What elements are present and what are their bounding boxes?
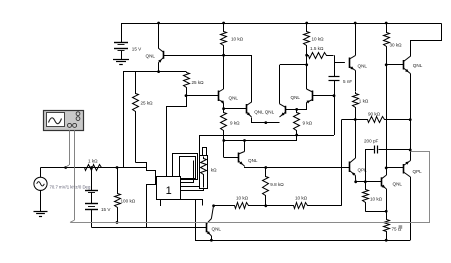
svg-text:QNL: QNL <box>413 63 423 68</box>
svg-text:10 kΩ: 10 kΩ <box>236 196 249 201</box>
svg-text:70.7 mV/1 kHz/0 Deg: 70.7 mV/1 kHz/0 Deg <box>50 184 91 189</box>
svg-text:QPL: QPL <box>413 169 423 174</box>
svg-text:10 kΩ: 10 kΩ <box>295 196 308 201</box>
svg-text:9 kΩ: 9 kΩ <box>303 121 313 126</box>
svg-text:90 kΩ: 90 kΩ <box>368 111 381 116</box>
svg-text:100 kΩ: 100 kΩ <box>121 199 136 204</box>
svg-text:QNL: QNL <box>146 54 156 59</box>
svg-text:QNL: QNL <box>358 63 368 68</box>
svg-text:25 kΩ: 25 kΩ <box>192 80 205 85</box>
svg-text:15 V: 15 V <box>132 47 142 52</box>
svg-text:1: 1 <box>166 185 172 197</box>
svg-text:QNL: QNL <box>248 158 258 163</box>
svg-text:QNL: QNL <box>291 95 301 100</box>
svg-text:1 kΩ: 1 kΩ <box>359 99 369 104</box>
svg-text:QNL: QNL <box>393 182 403 187</box>
svg-text:1 kΩ: 1 kΩ <box>88 159 98 164</box>
svg-text:15 V: 15 V <box>101 207 111 212</box>
svg-text:10 kΩ: 10 kΩ <box>312 37 325 42</box>
svg-text:QNL: QNL <box>229 96 239 101</box>
svg-text:QNL: QNL <box>212 227 222 232</box>
svg-text:10 kΩ: 10 kΩ <box>370 197 383 202</box>
svg-text:25 kΩ: 25 kΩ <box>141 101 154 106</box>
svg-text:200 pF: 200 pF <box>364 139 378 144</box>
svg-text:QNL QNL: QNL QNL <box>254 110 274 115</box>
svg-text:1.5 kΩ: 1.5 kΩ <box>310 46 324 51</box>
svg-text:5 nF: 5 nF <box>343 79 352 84</box>
svg-text:9 kΩ: 9 kΩ <box>230 121 240 126</box>
svg-text:30 kΩ: 30 kΩ <box>390 43 403 48</box>
svg-text:9.8 kΩ: 9.8 kΩ <box>270 182 284 187</box>
svg-text:kΩ: kΩ <box>211 167 217 172</box>
svg-text:10 kΩ: 10 kΩ <box>231 37 244 42</box>
